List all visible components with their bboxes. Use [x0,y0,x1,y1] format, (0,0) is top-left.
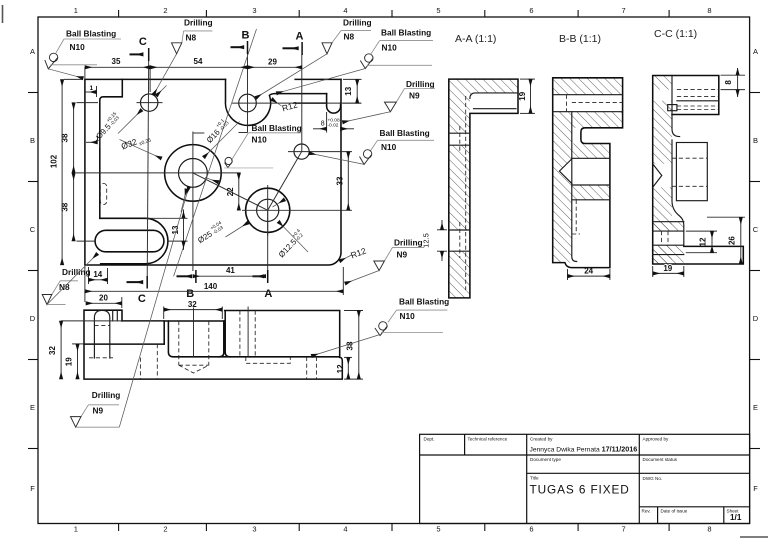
svg-text:6: 6 [529,6,533,15]
tick A top [283,31,304,56]
step 12 level [168,321,339,357]
CC arm lines [677,90,719,110]
svg-text:N10: N10 [252,135,268,145]
svg-text:A-A (1:1): A-A (1:1) [455,33,496,45]
hole8 [294,144,309,159]
svg-text:1: 1 [74,525,78,534]
svg-text:Drilling: Drilling [92,390,121,400]
svg-text:Ball Blasting: Ball Blasting [399,297,449,307]
svg-text:102: 102 [50,154,59,168]
svg-text:Ball Blasting: Ball Blasting [381,28,431,38]
svg-text:Rev.: Rev. [642,508,651,513]
CC pocket [676,143,707,201]
svg-text:Ball Blasting: Ball Blasting [380,128,430,138]
svg-text:D: D [753,314,759,323]
flag ballblasting N10 right [309,128,434,164]
right block centerline [247,307,249,357]
svg-text:+0.08: +0.08 [328,117,340,123]
svg-text:TUGAS 6 FIXED: TUGAS 6 FIXED [530,483,630,497]
AA outline [449,79,518,298]
svg-text:N10: N10 [382,43,398,53]
svg-text:140: 140 [204,282,218,291]
svg-text:N9: N9 [397,250,408,260]
svg-text:Drilling: Drilling [343,18,372,28]
CC white band keyhole [652,90,673,101]
top-right edge [295,78,341,80]
BB hatch top band [553,78,623,95]
row ticks left [28,93,38,449]
svg-text:B: B [186,288,194,300]
tick C bottom [127,276,148,305]
svg-text:19: 19 [518,91,527,100]
CC hatch left bar [653,76,672,265]
flag ballblasting N10 inner [224,123,301,168]
svg-text:33: 33 [336,176,345,185]
dim 38 right [344,311,363,380]
svg-text:5: 5 [436,525,440,534]
tick A bottom [253,270,273,300]
dim 19 left [65,344,83,379]
dashed vertical 140 [139,358,141,380]
svg-text:1/1: 1/1 [730,513,742,522]
svg-text:F: F [753,484,758,493]
svg-text:1: 1 [74,6,78,15]
dim 32 top (mid block) [164,300,223,319]
svg-text:4: 4 [343,6,347,15]
TITLEBLOCK [420,434,750,523]
svg-text:Drilling: Drilling [62,267,91,277]
svg-text:A: A [753,47,758,56]
hidden slot small dashed [100,184,106,205]
svg-text:Drilling: Drilling [406,79,435,89]
SECTION-CC [0,0,1,1]
svg-text:Document type: Document type [530,457,561,462]
svg-text:E: E [753,403,758,412]
plate outline main [85,79,341,265]
svg-text:8: 8 [724,80,733,85]
svg-text:1: 1 [90,85,94,92]
tick C top [130,36,149,61]
FLAGS [42,18,449,428]
BB hatch band4 [572,185,610,200]
svg-text:-0.02: -0.02 [328,123,339,129]
left block dashed levels [94,325,109,327]
title block grid [420,434,750,523]
svg-text:14: 14 [93,270,102,279]
svg-text:N10: N10 [381,142,397,152]
svg-text:12: 12 [336,364,345,373]
BB dashed lines [567,95,623,234]
dim 8 notch [313,112,354,133]
svg-text:C: C [139,36,147,48]
section line A lower [267,210,269,276]
flag drilling N9 bottom [71,187,189,428]
slot inner stadium [95,230,164,252]
svg-text:Document status: Document status [643,457,678,462]
mid block centerline [193,308,195,358]
CC hatch base bottom [653,245,684,264]
CC dim 8 [721,68,746,97]
section line A vertical [301,55,303,152]
svg-text:N8: N8 [186,33,197,43]
svg-text:N10: N10 [70,42,86,52]
dim 33 [336,152,349,211]
BB drill cone white [559,158,572,184]
hidden step under right block [246,357,290,364]
svg-text:DWG No.: DWG No. [643,476,663,481]
AA dashed bore lines [465,96,467,290]
svg-text:35: 35 [112,57,121,66]
keyhole centerline [232,102,361,104]
column ticks bottom [119,524,670,532]
flag drilling N8 topmid [256,18,372,99]
svg-text:A: A [30,47,35,56]
svg-text:N9: N9 [93,406,104,416]
tick B bottom [177,270,196,300]
cb32 bracket [193,132,204,134]
label dia9.5 [93,86,167,141]
svg-text:B-B (1:1): B-B (1:1) [559,33,601,45]
hole C1 crosshair [137,102,163,104]
flag drilling N9 right1 [343,79,436,122]
CC bar notch [668,105,677,111]
label R12 bottom [340,246,368,262]
cb32 v centerline [192,132,194,272]
AA inner hatch edge [470,93,518,99]
U-notch 8mm [327,94,341,114]
tick B top [231,30,250,55]
svg-text:C-C (1:1): C-C (1:1) [654,28,697,40]
svg-text:2: 2 [163,525,167,534]
CC white band cone [652,164,673,188]
AA white band 1 [448,133,471,145]
section line C [147,56,149,280]
svg-text:A: A [296,31,304,43]
label R12 top [272,99,299,113]
flag ballblasting N10 topleft [45,29,121,79]
svg-text:E: E [30,403,35,412]
left step profile [100,79,123,218]
cb25 v centerline [267,185,269,236]
dim line 54 [150,66,247,68]
svg-text:29: 29 [268,58,277,67]
dim 13 top-right [343,79,362,103]
dim 12 right [336,357,352,379]
CC cone lines [653,164,662,188]
svg-text:Drilling: Drilling [394,238,423,248]
svg-text:C: C [138,293,146,305]
section line B long diagonal [174,29,257,276]
label dia12.5 [275,222,308,260]
CC dim 12 [686,231,717,253]
CC hatch base left [653,222,684,231]
svg-text:N8: N8 [344,32,355,42]
mid block hidden hole [178,321,180,365]
svg-text:C: C [30,225,36,234]
hole8 h centerline [288,151,352,153]
svg-text:B: B [30,136,35,145]
page edge artifact bottom-right [740,536,768,538]
AA dim 12.5 [422,220,448,261]
mini dim 1 top [85,85,97,97]
svg-text:8: 8 [321,121,325,128]
dim 14 [89,267,108,284]
svg-text:B: B [753,136,758,145]
SECTION-BB [553,33,623,280]
AA white band 2 [448,230,471,251]
svg-text:26: 26 [727,236,736,245]
flag drilling N9 right2 [345,238,424,284]
BB drill cone [559,159,571,184]
dim 140 [85,266,343,302]
svg-text:8: 8 [707,6,711,15]
svg-text:4: 4 [343,525,347,534]
svg-text:38: 38 [345,341,354,350]
label dia16 [203,117,239,158]
dim 22 [226,173,239,210]
step 19 level [84,343,164,345]
CC dim 19 [653,264,684,277]
counterbore16 inner [179,159,208,188]
BB outline [553,78,623,268]
label dia25 [195,199,285,245]
svg-text:20: 20 [99,293,108,302]
front view outline [84,310,342,379]
CC base lines [653,222,684,255]
MAINVIEW [50,29,368,308]
BB hatch band3 [553,112,623,128]
svg-text:Dept.: Dept. [424,437,435,442]
CC arm solid line [677,100,719,102]
column ticks top [119,10,670,17]
svg-text:22: 22 [226,187,235,196]
dim 13 slot [146,210,188,250]
SECTION-AA [422,33,536,298]
section line B vertical [247,54,249,133]
BB dim 24 [568,266,610,280]
svg-text:41: 41 [226,266,235,275]
svg-text:N10: N10 [400,311,416,321]
counterbore12.5 inner [257,199,279,221]
AA arm inner line [474,108,517,110]
slot boss outer [101,218,168,263]
svg-text:13: 13 [344,86,353,95]
extra leader arrow at cb16 [181,189,187,212]
svg-text:8: 8 [707,525,711,534]
svg-text:24: 24 [584,266,593,275]
svg-text:N9: N9 [409,91,420,101]
page edge artifact top-left [2,5,4,23]
svg-text:Technical reference: Technical reference [468,437,508,442]
svg-text:Ball Blasting: Ball Blasting [252,123,302,133]
svg-text:32: 32 [188,300,197,309]
dim line 29 [248,66,302,68]
dim 102 [50,79,83,265]
CC white band base hole [652,231,685,245]
svg-text:6: 6 [529,525,533,534]
svg-text:7: 7 [622,6,626,15]
column numbers top [74,6,712,15]
svg-text:Date of issue: Date of issue [661,508,688,513]
AA hatch region [449,79,518,298]
CC dim 26 [707,217,745,264]
flag ballblasting N10 top2 [277,28,434,94]
row letters right [753,47,759,493]
left block verticals [112,310,114,321]
mini dim 1 mid [86,136,100,149]
CC outline [653,76,744,265]
step edge y103 [295,102,326,104]
keyhole notch R12 [225,79,326,125]
SECTION-CC [652,28,745,277]
svg-text:7: 7 [622,525,626,534]
dashed vertical 157 [156,344,158,379]
svg-text:Approved by: Approved by [643,437,669,442]
svg-text:Ball Blasting: Ball Blasting [66,29,116,39]
row letters left [30,47,36,493]
svg-text:B: B [242,30,250,42]
right block hidden hole [239,311,241,357]
counterbore25 outer [246,188,290,232]
svg-text:Drilling: Drilling [184,18,213,28]
BB hatch arm3 [572,144,610,159]
cell captions [424,437,740,514]
CC bar right edge [672,76,684,247]
svg-text:19: 19 [663,264,672,273]
dim 35-54-29 extensions [85,67,150,92]
BB hatch left bar [553,128,572,263]
flag ballblasting N10 bottomright [312,297,450,357]
svg-text:Created by: Created by [530,437,553,442]
dim line 35 [85,66,150,68]
svg-text:A: A [264,288,272,300]
dim 20 [86,293,122,308]
crank line cb32 to cb25 [193,173,268,210]
BB inner lines [553,95,623,262]
hole C1 [141,94,158,111]
front mid block top [122,321,224,344]
svg-text:3: 3 [252,6,256,15]
keyhole hole [239,94,257,112]
svg-text:2: 2 [163,6,167,15]
svg-text:3: 3 [252,525,256,534]
dim 41 [193,266,266,276]
AA band edges [449,133,470,251]
svg-text:32: 32 [48,346,57,355]
svg-text:F: F [30,484,35,493]
svg-text:Title: Title [530,475,539,480]
BOTTOMVIEW [48,300,363,379]
cb25 h centerline [242,209,352,211]
CC base dashed verticals [661,231,663,245]
svg-text:C: C [753,225,759,234]
svg-text:5: 5 [436,6,440,15]
flag drilling N8 bottomleft [42,254,97,305]
svg-text:12.5: 12.5 [422,233,431,248]
dashed vertical base right [306,357,308,379]
dim 38 lower [60,173,96,241]
label dia32 [120,132,219,183]
svg-text:D: D [30,314,36,323]
svg-text:54: 54 [194,57,203,66]
row ticks right [750,93,760,449]
dim 38 upper [60,103,98,173]
svg-text:Jennyca Dwika Pernata 17/11/20: Jennyca Dwika Pernata 17/11/2016 [530,445,638,454]
svg-text:19: 19 [65,357,74,366]
dim 32 left [48,321,163,379]
section line A crank [268,152,302,211]
AA dim 19 [518,79,535,113]
counterbore32 outer [165,145,222,202]
left block inner U profile [94,310,109,358]
flag drilling N8 topleft [153,18,212,96]
CC pocket dashed [672,157,707,159]
svg-text:12: 12 [699,237,708,246]
cb32 h centerline [76,172,241,174]
SECTION-BB [0,0,1,1]
drill cone dashed [179,365,209,373]
column numbers bottom [74,525,712,534]
